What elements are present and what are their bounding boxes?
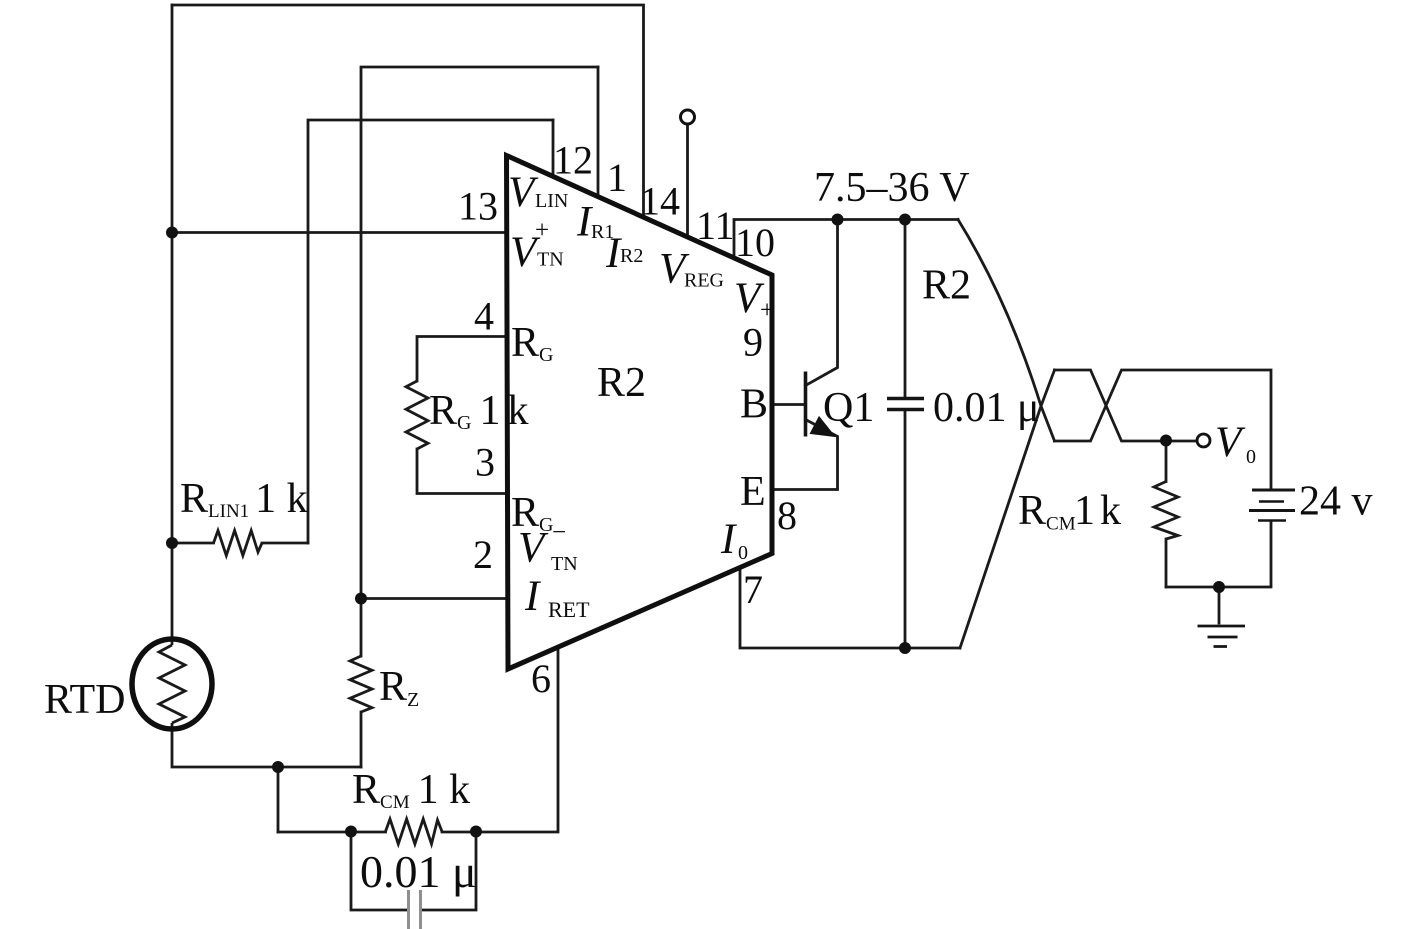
svg-text:12: 12 [553,138,593,183]
svg-text:3: 3 [475,439,495,484]
svg-text:R2: R2 [597,360,646,406]
svg-text:I: I [524,573,541,620]
svg-text:7.5–36 V: 7.5–36 V [814,165,970,211]
svg-text:24 v: 24 v [1299,479,1373,525]
svg-text:R2: R2 [922,263,971,309]
svg-text:TN: TN [537,249,564,271]
svg-text:LIN: LIN [535,190,568,212]
svg-text:6: 6 [531,656,551,701]
svg-text:0: 0 [1246,446,1256,468]
svg-text:RG1k: RG1k [429,388,528,434]
svg-text:k: k [1100,488,1121,534]
svg-text:−: − [552,519,566,546]
svg-text:0: 0 [738,542,748,564]
svg-text:0.01 μ: 0.01 μ [360,846,477,897]
svg-text:TN: TN [551,553,578,575]
svg-text:11: 11 [696,203,735,248]
svg-text:10: 10 [735,220,775,265]
svg-text:Q1: Q1 [823,385,874,431]
svg-text:R1: R1 [591,221,614,243]
svg-text:2: 2 [473,532,493,577]
svg-text:RET: RET [548,597,590,622]
svg-text:13: 13 [458,184,498,229]
svg-text:8: 8 [777,493,797,538]
svg-text:1: 1 [607,155,627,200]
svg-text:I: I [720,516,737,563]
svg-text:0.01 μ: 0.01 μ [933,385,1040,431]
svg-text:9: 9 [743,320,763,365]
svg-text:R2: R2 [620,245,643,267]
svg-text:+: + [535,217,549,244]
svg-text:REG: REG [684,270,724,292]
svg-text:B: B [740,382,768,428]
svg-text:E: E [740,469,766,515]
svg-text:+: + [760,297,774,324]
svg-text:1: 1 [1074,488,1095,534]
svg-text:14: 14 [640,179,680,224]
svg-text:7: 7 [743,567,763,612]
svg-text:RTD: RTD [44,677,125,723]
svg-text:4: 4 [474,294,494,339]
